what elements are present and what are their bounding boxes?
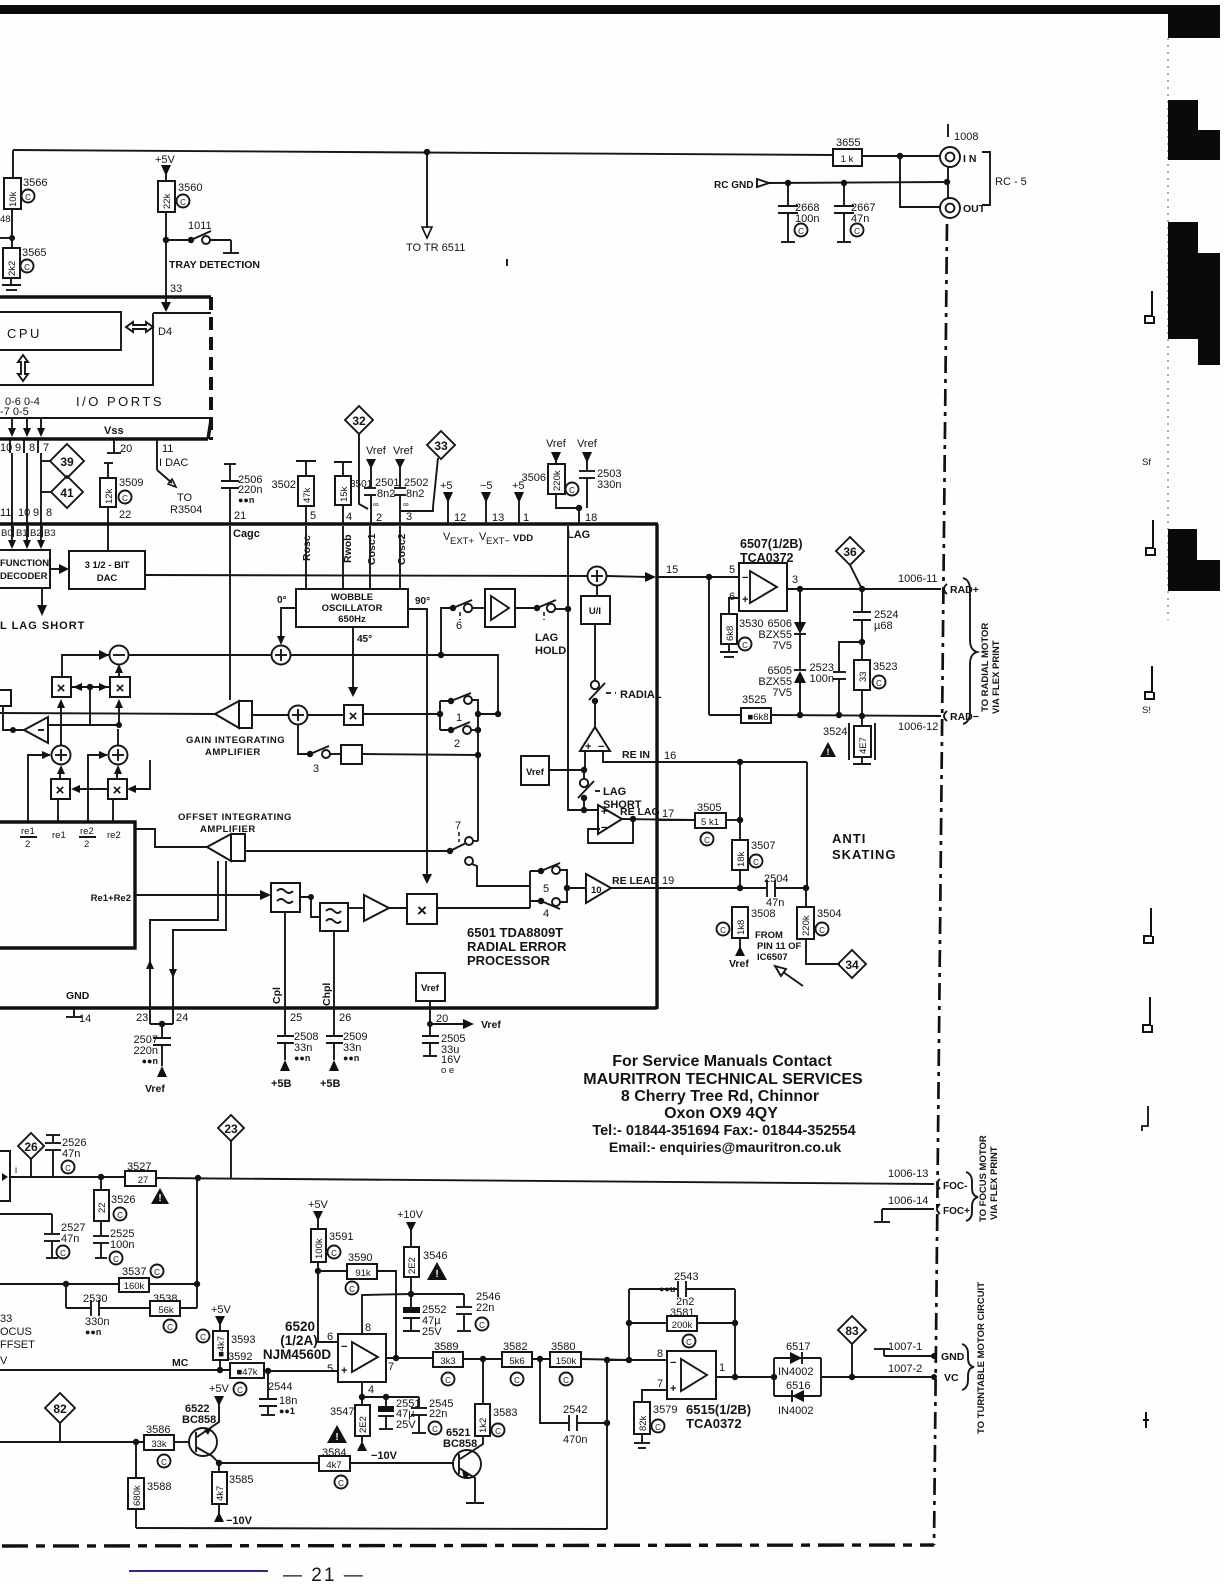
svg-text:100n: 100n bbox=[810, 673, 834, 685]
wire pin15 to 6507 bbox=[657, 576, 739, 578]
svg-text:6k8: 6k8 bbox=[725, 626, 736, 641]
svg-text:C: C bbox=[479, 1321, 485, 1330]
arrow into CPU port 33 bbox=[165, 297, 167, 305]
svg-text:C: C bbox=[753, 858, 759, 867]
wire link down to amp line bbox=[89, 687, 91, 725]
wire to 2523 bbox=[839, 642, 862, 671]
I/O ports box bottom edge thick bbox=[0, 437, 208, 440]
svg-text:TO TURNTABLE MOTOR CIRCUIT: TO TURNTABLE MOTOR CIRCUIT bbox=[976, 1282, 987, 1434]
svg-text:C: C bbox=[798, 227, 804, 236]
svg-text:220k: 220k bbox=[552, 470, 563, 491]
svg-text:C: C bbox=[24, 263, 30, 272]
svg-text:3508: 3508 bbox=[751, 908, 775, 920]
svg-text:■47k: ■47k bbox=[236, 1367, 257, 1378]
svg-text:+: + bbox=[601, 806, 607, 818]
FOC+ bracket bbox=[937, 1204, 940, 1214]
svg-text:11: 11 bbox=[162, 443, 173, 455]
FOC- bracket bbox=[937, 1179, 940, 1189]
capacitor 2545 22n bbox=[418, 1397, 420, 1407]
svg-text:22n: 22n bbox=[476, 1302, 494, 1314]
svg-text:7V5: 7V5 bbox=[772, 687, 792, 699]
summer circle A bbox=[52, 746, 71, 765]
svg-text:LAG: LAG bbox=[603, 786, 626, 798]
svg-text:3583: 3583 bbox=[493, 1407, 517, 1419]
svg-text:FOC+: FOC+ bbox=[943, 1206, 970, 1217]
svg-text:RE LEAD: RE LEAD bbox=[612, 875, 659, 887]
svg-text:3655: 3655 bbox=[836, 137, 860, 149]
svg-text:MAURITRON TECHNICAL SERVICES: MAURITRON TECHNICAL SERVICES bbox=[583, 1071, 863, 1088]
svg-text:4k7: 4k7 bbox=[326, 1460, 341, 1471]
svg-text:220k: 220k bbox=[801, 915, 812, 936]
svg-text:6: 6 bbox=[456, 620, 462, 632]
svg-text:33: 33 bbox=[434, 439, 448, 453]
amp 10 triangle bbox=[586, 874, 611, 903]
svg-text:C: C bbox=[65, 1164, 71, 1173]
+5B arrow below 2509 bbox=[329, 1060, 339, 1071]
svg-text:2E2: 2E2 bbox=[358, 1416, 369, 1433]
diamond 41 bbox=[51, 476, 83, 508]
big multiplier bbox=[407, 894, 437, 924]
svg-text:1006-12: 1006-12 bbox=[898, 721, 938, 733]
wire pin21 Cagc down bbox=[229, 526, 231, 700]
svg-text:−: − bbox=[341, 1341, 347, 1353]
wire amp10 RE LEAD out bbox=[611, 887, 740, 889]
svg-text:41: 41 bbox=[60, 486, 74, 500]
svg-text:90°: 90° bbox=[415, 596, 430, 607]
resistor 3530 6k8 bbox=[721, 614, 737, 644]
diamond 23 bbox=[218, 1115, 244, 1141]
svg-text:C: C bbox=[495, 1427, 501, 1436]
wire Vref to comparator bbox=[549, 769, 584, 771]
multiplier 1 bbox=[344, 705, 363, 725]
svg-text:Cpl: Cpl bbox=[271, 987, 283, 1004]
svg-text:22n: 22n bbox=[429, 1408, 447, 1420]
RE LAG op-amp triangle bbox=[598, 805, 622, 834]
resistor 3504 220k bbox=[797, 907, 814, 939]
svg-text:1007-2: 1007-2 bbox=[888, 1363, 922, 1375]
svg-text:14: 14 bbox=[79, 1013, 91, 1025]
svg-text:23: 23 bbox=[224, 1122, 238, 1136]
gain amp input wire bbox=[0, 713, 215, 714]
svg-text:5: 5 bbox=[729, 564, 735, 576]
svg-text:Tel:- 01844-351694 Fax:- 01844: Tel:- 01844-351694 Fax:- 01844-352554 bbox=[592, 1123, 855, 1139]
svg-text:6507(1/2B): 6507(1/2B) bbox=[740, 537, 803, 551]
svg-text:re2: re2 bbox=[107, 830, 121, 841]
diamond 33 bbox=[427, 431, 455, 459]
capacitor 2507 220n bbox=[161, 1024, 163, 1037]
svg-text:OSCILLATOR: OSCILLATOR bbox=[322, 603, 383, 614]
svg-text:3506: 3506 bbox=[522, 472, 546, 484]
svg-text:RADIAL ERROR: RADIAL ERROR bbox=[467, 939, 567, 954]
svg-text:RAD+: RAD+ bbox=[950, 584, 979, 596]
wires pins into oscillator bbox=[305, 526, 307, 589]
svg-text:GND: GND bbox=[66, 990, 90, 1002]
svg-text:I/O PORTS: I/O PORTS bbox=[76, 394, 164, 409]
capacitor 2509 33n bbox=[326, 1035, 343, 1037]
top-right black tab bbox=[1168, 5, 1220, 38]
gain amp triangle bbox=[215, 701, 239, 728]
wire into multC bbox=[75, 788, 108, 790]
svg-text:470n: 470n bbox=[563, 1434, 587, 1446]
svg-text:LAG: LAG bbox=[567, 529, 590, 541]
multiplier A bbox=[52, 677, 71, 697]
svg-text:−: − bbox=[742, 572, 748, 584]
FOC+ wire bbox=[882, 1208, 934, 1210]
resistor 3523 33 bbox=[854, 660, 870, 690]
wire 3580 node to 6515 bbox=[607, 1359, 667, 1361]
svg-text:IN4002: IN4002 bbox=[778, 1405, 813, 1417]
svg-text:+: + bbox=[670, 1383, 676, 1395]
IC6501 right edge bbox=[655, 524, 658, 1009]
svg-text:6501 TDA8809T: 6501 TDA8809T bbox=[467, 925, 563, 940]
svg-text:■6k8: ■6k8 bbox=[747, 712, 768, 723]
wire node column bbox=[739, 762, 741, 840]
ground below 3565 bbox=[10, 278, 12, 285]
wire pin6 to 6k8 bbox=[729, 598, 739, 614]
wire offset pin23 step bbox=[150, 861, 218, 1024]
svg-text:●●1: ●●1 bbox=[279, 1406, 295, 1416]
svg-text:PROCESSOR: PROCESSOR bbox=[467, 953, 551, 968]
capacitor 2505 33u bbox=[422, 1035, 439, 1037]
svg-text:47n: 47n bbox=[62, 1148, 80, 1160]
diamond 34 bbox=[838, 950, 866, 978]
svg-text:83: 83 bbox=[845, 1324, 859, 1338]
summer circle B bbox=[109, 746, 128, 765]
capacitor 2542 470n bbox=[540, 1359, 568, 1423]
svg-text:C: C bbox=[686, 1338, 692, 1347]
capacitor 2546 22n bbox=[411, 1293, 464, 1295]
svg-text:16: 16 bbox=[664, 750, 676, 762]
svg-text:3502: 3502 bbox=[272, 479, 296, 491]
wire switch54 to amp10 bbox=[567, 887, 586, 889]
svg-text:3565: 3565 bbox=[22, 247, 46, 259]
pin 20 wire bbox=[429, 1009, 431, 1035]
bottom rail 6520 bbox=[136, 1528, 607, 1529]
svg-text:3: 3 bbox=[313, 763, 319, 775]
svg-text:OFFSET INTEGRATING: OFFSET INTEGRATING bbox=[178, 812, 292, 823]
svg-text:4k7: 4k7 bbox=[215, 1486, 226, 1501]
svg-text:10: 10 bbox=[0, 442, 12, 454]
6515 output wire bbox=[716, 1376, 774, 1378]
resistor 3593 4k7 bbox=[197, 1330, 210, 1343]
switch LAG HOLD bbox=[515, 607, 535, 609]
svg-text:8: 8 bbox=[29, 442, 35, 454]
svg-text:FROM: FROM bbox=[755, 930, 783, 941]
svg-text:C: C bbox=[167, 1323, 173, 1332]
diode 6506 BZX55 bbox=[799, 589, 801, 622]
re wires from block bbox=[28, 755, 50, 822]
D4 partition bbox=[0, 313, 153, 385]
svg-text:D4: D4 bbox=[158, 326, 172, 338]
svg-text:3: 3 bbox=[792, 574, 798, 586]
svg-text:22: 22 bbox=[119, 509, 131, 521]
op-amp 6507 box bbox=[739, 563, 787, 611]
svg-text:6: 6 bbox=[327, 1331, 333, 1343]
wire U/I down bbox=[594, 624, 596, 681]
pin7 wire to 82k bbox=[642, 1390, 667, 1402]
svg-text:C: C bbox=[655, 1423, 661, 1432]
switch LAG SHORT bbox=[580, 779, 588, 787]
right tab block 3 bbox=[1168, 222, 1198, 254]
focus motor brace bbox=[966, 1172, 978, 1221]
feedback rail left bbox=[628, 1289, 630, 1360]
wire 90deg down to multiplier bbox=[408, 609, 427, 877]
svg-text:TCA0372: TCA0372 bbox=[686, 1416, 742, 1431]
internal block outline bbox=[0, 822, 135, 948]
svg-text:7: 7 bbox=[388, 1361, 394, 1373]
wire Cpl pin25 bbox=[284, 912, 286, 1035]
svg-text:●●n: ●●n bbox=[238, 495, 254, 505]
svg-text:C: C bbox=[349, 1285, 355, 1294]
svg-text:10: 10 bbox=[18, 507, 30, 519]
svg-text:2k2: 2k2 bbox=[7, 261, 18, 276]
RAD+ bracket bbox=[944, 584, 947, 594]
resistor 3585 4k7 bbox=[218, 1463, 220, 1472]
amp triangle pre-mult bbox=[364, 895, 389, 921]
svg-text:160k: 160k bbox=[124, 1281, 145, 1292]
svg-text:4: 4 bbox=[368, 1384, 374, 1396]
svg-text:39: 39 bbox=[60, 455, 74, 469]
svg-text:●●n: ●●n bbox=[142, 1056, 158, 1066]
svg-text:C: C bbox=[25, 193, 31, 202]
svg-text:17: 17 bbox=[662, 808, 674, 820]
svg-text:100k: 100k bbox=[314, 1238, 325, 1259]
wire summer to mult1 bbox=[308, 714, 344, 716]
svg-text:100n: 100n bbox=[110, 1239, 134, 1251]
svg-text:ANTI: ANTI bbox=[832, 831, 866, 846]
U/I box bbox=[581, 596, 610, 624]
I/O ports box top edge bbox=[0, 295, 211, 298]
svg-text:S!: S! bbox=[1142, 705, 1151, 716]
svg-text:36: 36 bbox=[843, 545, 857, 559]
wire diamond33 to pin3 bbox=[400, 458, 438, 511]
svg-text:B3: B3 bbox=[44, 528, 56, 539]
radial motor brace bbox=[963, 578, 977, 724]
svg-text:+: + bbox=[742, 594, 748, 606]
right margin bracket glyph 1 bbox=[1145, 291, 1154, 323]
offset integrating amplifier bbox=[207, 834, 231, 861]
svg-text:25: 25 bbox=[290, 1012, 302, 1024]
svg-text:RC - 5: RC - 5 bbox=[995, 176, 1027, 188]
svg-text:Vref: Vref bbox=[421, 983, 440, 994]
svg-text:Cosc1: Cosc1 bbox=[366, 533, 378, 565]
wire 3655 to IN bbox=[862, 155, 940, 157]
svg-text:−5: −5 bbox=[480, 480, 493, 492]
wire Chpl pin26 bbox=[333, 931, 335, 1035]
svg-text:I N: I N bbox=[963, 153, 976, 165]
svg-text:Oxon OX9 4QY: Oxon OX9 4QY bbox=[664, 1105, 778, 1122]
svg-text:+5: +5 bbox=[440, 480, 453, 492]
svg-text:C: C bbox=[180, 198, 186, 207]
wire filter2 to amp bbox=[348, 907, 364, 909]
svg-text:C: C bbox=[154, 1268, 160, 1277]
svg-text:5: 5 bbox=[310, 510, 316, 522]
svg-text:IN4002: IN4002 bbox=[778, 1366, 813, 1378]
svg-text:3k3: 3k3 bbox=[440, 1356, 455, 1367]
wire RC GND bbox=[769, 182, 947, 183]
svg-text:25V: 25V bbox=[422, 1326, 442, 1338]
svg-text:18: 18 bbox=[585, 512, 597, 524]
svg-text:EXT+: EXT+ bbox=[450, 536, 474, 547]
wire 3566 to 3565 bbox=[11, 209, 13, 248]
capacitor 2526 47n bbox=[46, 1134, 60, 1136]
svg-text:Chpl: Chpl bbox=[321, 983, 333, 1006]
arrow decoder to DAC bbox=[50, 568, 62, 570]
wire pin18 LAG down bbox=[567, 526, 569, 610]
svg-text:VIA FLEX PRINT: VIA FLEX PRINT bbox=[989, 1146, 1000, 1220]
right margin bracket glyph 4 bbox=[1144, 908, 1153, 943]
svg-text:×: × bbox=[116, 680, 125, 697]
svg-text:V: V bbox=[0, 1355, 8, 1367]
6522 emitter bbox=[196, 1447, 219, 1463]
svg-text:∞: ∞ bbox=[403, 500, 409, 509]
RC-5 bracket bbox=[982, 152, 990, 205]
pin15 arrow out bbox=[607, 576, 648, 577]
svg-text:7V5: 7V5 bbox=[772, 640, 792, 652]
svg-text:i: i bbox=[15, 1165, 17, 1176]
wire 3509 to bus bbox=[107, 507, 109, 551]
svg-text:3509: 3509 bbox=[119, 477, 143, 489]
right tab block 4 bbox=[1168, 529, 1197, 561]
summer circle gain bbox=[289, 706, 308, 725]
svg-text:6520: 6520 bbox=[285, 1319, 315, 1334]
switch block 1/2 bbox=[439, 701, 441, 730]
svg-text:+10V: +10V bbox=[397, 1209, 424, 1221]
left amp output wire bbox=[48, 724, 119, 726]
ground at switch bbox=[223, 252, 239, 254]
turntable brace bbox=[962, 1344, 974, 1390]
function decoder box bbox=[0, 550, 50, 588]
svg-text:2: 2 bbox=[84, 839, 89, 850]
svg-text:22k: 22k bbox=[162, 193, 173, 209]
lag amp box bbox=[485, 589, 515, 627]
svg-text:15k: 15k bbox=[339, 486, 350, 502]
svg-text:TO RADIAL MOTOR: TO RADIAL MOTOR bbox=[980, 623, 991, 712]
svg-text:-7 0-5: -7 0-5 bbox=[0, 406, 29, 418]
wire 82 row bbox=[0, 1441, 144, 1443]
svg-text:−: − bbox=[601, 822, 607, 834]
svg-text:C: C bbox=[569, 486, 575, 495]
svg-text:C: C bbox=[122, 494, 128, 503]
svg-text:Sf: Sf bbox=[1142, 457, 1151, 468]
svg-text:4: 4 bbox=[543, 908, 549, 920]
svg-text:3523: 3523 bbox=[873, 661, 897, 673]
svg-text:3: 3 bbox=[406, 511, 412, 523]
svg-text:22: 22 bbox=[97, 1202, 108, 1213]
svg-text:0°: 0° bbox=[277, 595, 287, 606]
svg-text:B0: B0 bbox=[1, 528, 13, 539]
svg-text:C: C bbox=[237, 1386, 243, 1395]
summer minus circle bbox=[110, 646, 129, 665]
Vref below 3508 bbox=[739, 938, 741, 948]
svg-text:C: C bbox=[445, 1376, 451, 1385]
warning triangle 3527 bbox=[151, 1188, 169, 1204]
svg-text:7: 7 bbox=[455, 820, 461, 832]
svg-text:2530: 2530 bbox=[83, 1293, 107, 1305]
pin separator lines bbox=[9, 440, 11, 453]
svg-text:R3504: R3504 bbox=[170, 504, 202, 516]
svg-text:L LAG SHORT: L LAG SHORT bbox=[0, 620, 85, 632]
svg-text:2: 2 bbox=[454, 738, 460, 750]
svg-text:47k: 47k bbox=[302, 487, 313, 503]
svg-text:!: ! bbox=[827, 747, 830, 757]
wire LAG line to op-amp bbox=[568, 610, 598, 810]
GND wire bbox=[884, 1355, 934, 1357]
svg-text:FOC-: FOC- bbox=[943, 1181, 967, 1192]
wire pins 23/24 join bbox=[150, 1023, 173, 1025]
svg-text:9: 9 bbox=[15, 442, 21, 454]
svg-text:+5V: +5V bbox=[308, 1199, 329, 1211]
capacitor 2506 220n pin21 bbox=[224, 463, 236, 465]
IC6501 top edge bus bbox=[0, 522, 658, 525]
pin8 wire bbox=[362, 1294, 411, 1334]
wire 91k right to pin7 bbox=[377, 1271, 396, 1358]
svg-text:1011: 1011 bbox=[188, 220, 212, 232]
capacitor 2552 47u electrolytic bbox=[403, 1307, 420, 1313]
wire into multD bbox=[131, 760, 150, 789]
svg-text:3525: 3525 bbox=[742, 694, 766, 706]
svg-text:AMPLIFIER: AMPLIFIER bbox=[200, 824, 256, 835]
svg-text:18k: 18k bbox=[736, 851, 747, 867]
svg-text:3504: 3504 bbox=[817, 908, 841, 920]
svg-text:34: 34 bbox=[845, 958, 859, 972]
OUT jack bbox=[940, 198, 960, 218]
svg-text:GAIN INTEGRATING: GAIN INTEGRATING bbox=[186, 735, 285, 746]
multiplier D bbox=[108, 779, 127, 799]
svg-text:82: 82 bbox=[53, 1402, 67, 1416]
svg-text:3560: 3560 bbox=[178, 182, 202, 194]
+5B arrow below 2508 bbox=[280, 1060, 290, 1071]
svg-text:20: 20 bbox=[120, 443, 132, 455]
wire 6507 output RAD+ bbox=[787, 588, 941, 590]
svg-text:6517: 6517 bbox=[786, 1341, 810, 1353]
svg-text:1k2: 1k2 bbox=[478, 1418, 489, 1433]
svg-text:U/I: U/I bbox=[589, 606, 601, 617]
svg-text:C: C bbox=[854, 227, 860, 236]
svg-text:3524: 3524 bbox=[823, 726, 847, 738]
svg-text:3590: 3590 bbox=[348, 1252, 372, 1264]
switch 7b contact bbox=[465, 857, 473, 865]
svg-text:3588: 3588 bbox=[147, 1481, 171, 1493]
svg-text:200k: 200k bbox=[672, 1320, 693, 1331]
RC GND triangle bbox=[757, 179, 769, 187]
resistor 3508 1k8 bbox=[732, 907, 748, 938]
wire switch6 to amp bbox=[472, 607, 485, 609]
arrow multD to summerB bbox=[116, 769, 118, 779]
link multA multB bbox=[71, 686, 110, 688]
svg-text:+5B: +5B bbox=[271, 1078, 292, 1090]
svg-text:C: C bbox=[60, 1249, 66, 1258]
svg-text:Vref: Vref bbox=[546, 438, 567, 450]
svg-text:HOLD: HOLD bbox=[535, 645, 566, 657]
svg-text:3591: 3591 bbox=[329, 1231, 353, 1243]
svg-text:−10V: −10V bbox=[371, 1450, 398, 1462]
svg-text:10k: 10k bbox=[8, 191, 19, 207]
svg-text:(1/2A): (1/2A) bbox=[280, 1333, 318, 1348]
I/O ports inner line bbox=[0, 417, 210, 419]
resistor 3566 10k bbox=[4, 178, 21, 209]
svg-text:1k8: 1k8 bbox=[736, 920, 747, 935]
svg-text:DECODER: DECODER bbox=[0, 571, 48, 582]
svg-text:For Service Manuals Contact: For Service Manuals Contact bbox=[612, 1053, 832, 1070]
wire Re1+Re2 to filter bbox=[135, 894, 263, 896]
emitter wire to 3584 bbox=[219, 1462, 319, 1464]
filter 2 Chpl box bbox=[320, 903, 348, 931]
svg-text:C: C bbox=[876, 679, 882, 688]
resistor 3546 2E2 bbox=[404, 1247, 419, 1277]
svg-text:1: 1 bbox=[719, 1362, 725, 1374]
pin7 output wire bbox=[386, 1357, 433, 1359]
